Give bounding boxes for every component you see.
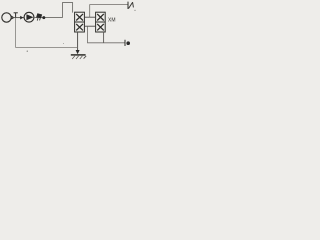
filter F1 xyxy=(36,13,42,20)
ground xyxy=(71,50,86,59)
vent stub xyxy=(14,13,18,18)
wire xyxy=(34,17,63,19)
svg-text:XM: XM xyxy=(108,17,116,23)
junction dot xyxy=(42,16,45,19)
wire xyxy=(77,32,79,51)
motor M1 xyxy=(2,13,11,22)
wire xyxy=(90,5,128,18)
valve V1 xyxy=(75,12,85,32)
speck xyxy=(134,10,135,11)
wire xyxy=(84,16,95,18)
valve V2 xyxy=(96,12,106,32)
wire xyxy=(88,26,125,43)
test point TP1 xyxy=(128,2,133,9)
arrowhead xyxy=(12,16,15,20)
speck xyxy=(27,51,28,52)
plug PL1 xyxy=(125,40,130,46)
wire xyxy=(16,18,78,48)
wire xyxy=(11,17,25,19)
wire xyxy=(84,25,95,27)
pump P1 xyxy=(24,12,34,22)
wire xyxy=(63,3,73,18)
speck xyxy=(63,43,64,44)
wire xyxy=(103,32,105,43)
arrowhead xyxy=(20,16,23,20)
